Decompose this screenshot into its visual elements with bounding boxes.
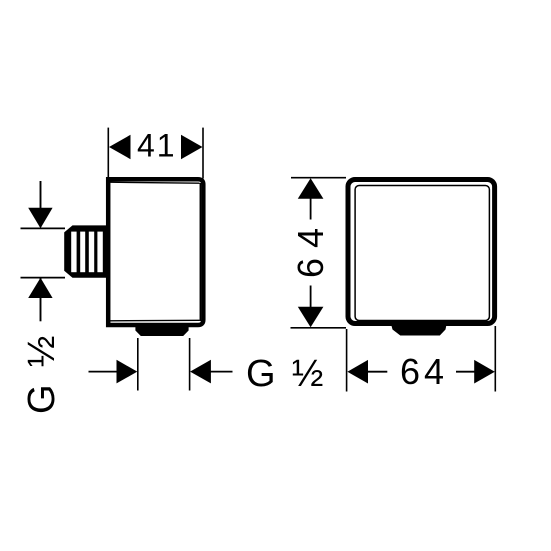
svg-text:41: 41 <box>137 128 177 164</box>
right vert dim upper arrowhead <box>298 178 324 199</box>
left outlet dim right arrowhead <box>190 360 211 384</box>
svg-text:64: 64 <box>290 218 331 278</box>
right view bottom outlet <box>391 322 448 336</box>
right horiz dim right extension line <box>494 326 496 392</box>
right horiz dim left line <box>368 371 388 373</box>
left outlet dim left arrowhead <box>117 360 138 384</box>
threaded connector <box>64 225 106 277</box>
left thread dim top extension line <box>21 227 66 229</box>
thread slot 3 <box>89 232 94 273</box>
svg-text:G ½: G ½ <box>246 353 326 395</box>
right view body outline <box>348 180 495 324</box>
right vert dim top extension line <box>291 177 346 179</box>
right vert dim bottom extension line <box>291 327 347 329</box>
right vert dim upper line <box>310 198 312 220</box>
left outlet dim right line <box>209 371 233 373</box>
left view inner top line <box>110 182 200 183</box>
dim 41 left extension line <box>107 128 109 179</box>
svg-text:64: 64 <box>400 351 448 392</box>
dim 41 right arrowhead <box>181 135 203 159</box>
dim 41 left arrowhead <box>109 135 131 159</box>
left view bottom outlet stub <box>135 324 188 336</box>
left outlet dim right extension line <box>189 338 191 391</box>
left thread dim upper line <box>40 181 42 227</box>
thread slot 1 <box>71 232 76 273</box>
dim 41 right extension line <box>202 128 204 179</box>
thread slot 2 <box>80 232 85 273</box>
left view body outline <box>108 179 203 325</box>
right vert dim lower line <box>310 286 312 308</box>
thread slot 4 <box>97 232 102 273</box>
left thread dim bottom extension line <box>21 277 66 279</box>
left thread dim lower line <box>40 278 42 321</box>
right view inner line <box>355 186 489 321</box>
right horiz dim left arrowhead <box>347 360 368 384</box>
right horiz dim right line <box>456 371 476 373</box>
right horiz dim right arrowhead <box>474 360 495 384</box>
left outlet dim left extension line <box>137 338 139 391</box>
left outlet dim left line <box>89 371 120 373</box>
right horiz dim left extension line <box>346 329 348 392</box>
right vert dim lower arrowhead <box>298 307 324 328</box>
left view inner bottom line <box>110 319 200 322</box>
left view inner right line <box>199 183 201 321</box>
svg-text:G ½: G ½ <box>21 332 63 414</box>
left thread dim upper arrowhead <box>28 208 52 229</box>
left thread dim lower arrowhead <box>28 278 52 298</box>
